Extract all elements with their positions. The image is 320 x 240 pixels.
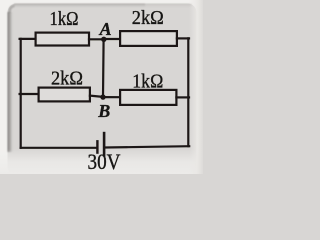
node B junction dot: [100, 94, 105, 99]
white surround outside page: [0, 0, 203, 174]
resistor R1 1kOhm (top-left): [36, 33, 89, 46]
node A junction dot: [101, 37, 106, 42]
svg-text:2kΩ: 2kΩ: [132, 7, 164, 29]
page left edge shadow: [8, 12, 14, 152]
svg-text:A: A: [99, 19, 112, 39]
wire: left vertical: [20, 39, 22, 148]
battery negative plate (short): [96, 141, 98, 152]
resistor R3 2kOhm (middle-left): [39, 88, 90, 102]
svg-text:1kΩ: 1kΩ: [50, 8, 79, 30]
wire: top-left stub: [20, 38, 36, 40]
wire: right vertical: [187, 38, 189, 146]
svg-text:30V: 30V: [88, 149, 121, 174]
right fade to white: [189, 0, 203, 174]
svg-text:2kΩ: 2kΩ: [51, 67, 83, 89]
wire: R4 to right vertical: [176, 96, 189, 98]
battery positive plate (long): [103, 133, 106, 155]
wire: node A to node B vertical: [102, 39, 105, 97]
wire: bottom left segment: [21, 147, 97, 149]
svg-text:B: B: [97, 101, 110, 121]
wire: node B to R4: [103, 96, 121, 98]
wire: R1 to node A: [89, 38, 103, 40]
wire: R3 to node B: [90, 96, 103, 97]
bottom fade to white: [0, 149, 203, 174]
svg-text:1kΩ: 1kΩ: [132, 70, 163, 92]
wire: middle-left stub: [20, 93, 40, 95]
wire: node A to R2: [104, 38, 121, 40]
wire: bottom right segment: [105, 146, 189, 147]
resistor R2 2kOhm (top-right): [120, 31, 177, 46]
resistor R4 1kOhm (middle-right): [120, 90, 176, 105]
wire: R2 to right vertical: [177, 37, 189, 39]
page top edge shadow: [14, 4, 145, 9]
page corner arc shadow: [10, 6, 15, 13]
paper page: [8, 4, 197, 176]
